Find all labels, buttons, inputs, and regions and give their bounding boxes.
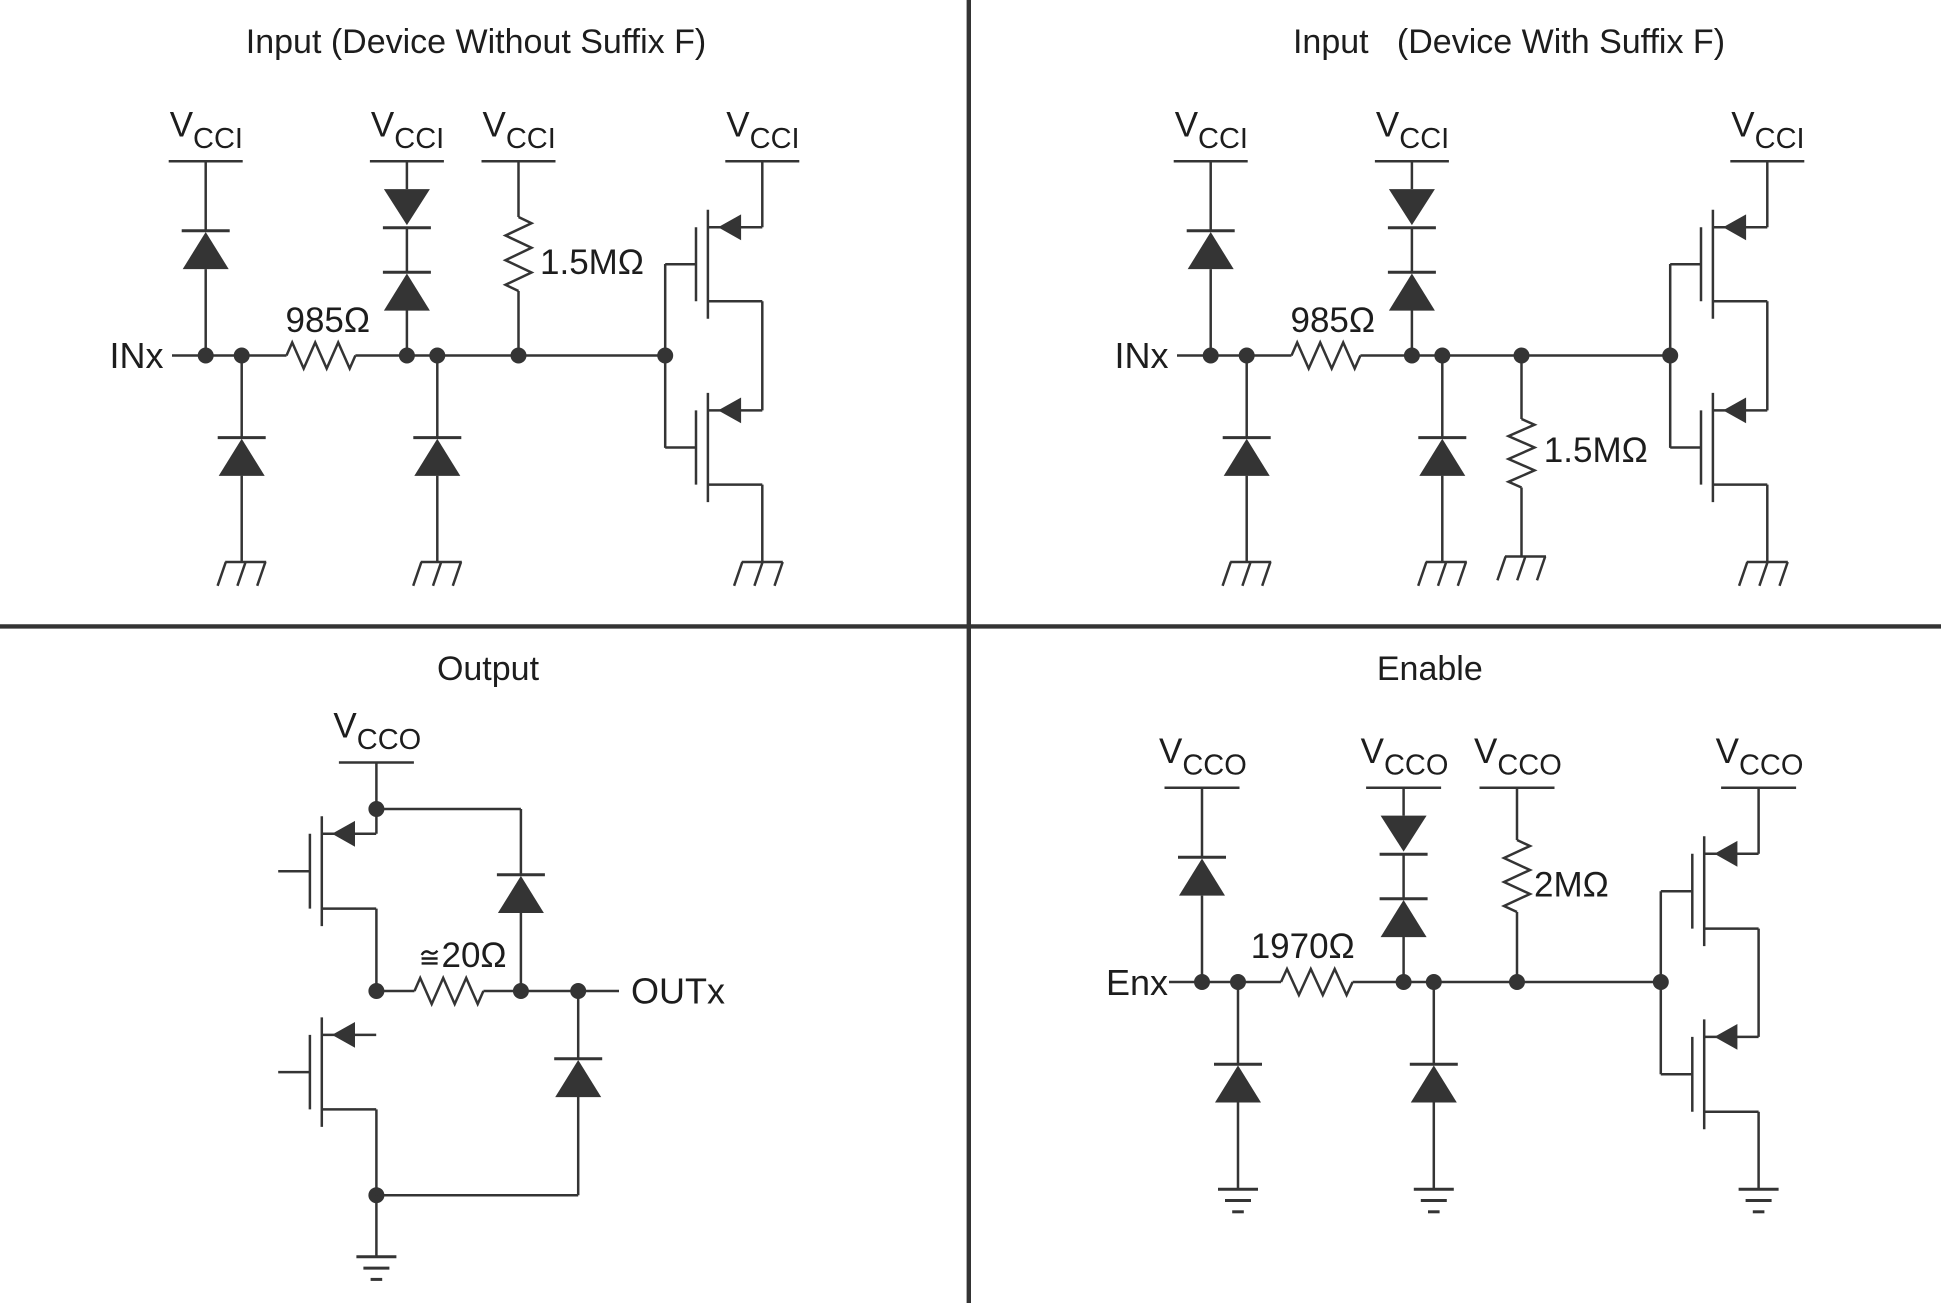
wire PMOS drain to NMOS drain (enable) xyxy=(1757,929,1760,1037)
junction at output node xyxy=(368,983,384,999)
power rail VCCI (D6) xyxy=(1174,160,1248,163)
resistor 985 ohm xyxy=(287,343,356,369)
junction after 20 ohm resistor xyxy=(513,983,529,999)
resistor 1.5 Mohm pull-down xyxy=(1509,356,1535,557)
wire resistor to gate node xyxy=(355,354,665,357)
diode D6 (input to VCCI) xyxy=(1187,161,1235,355)
diode D11 (OUTx to VCCO) xyxy=(497,875,545,991)
ground (under D9) xyxy=(1223,562,1272,586)
power rail VCCI (inverter F) xyxy=(1730,160,1804,163)
junction at D6 column xyxy=(1203,348,1219,364)
ground (under D17, earth symbol) xyxy=(1414,1189,1454,1212)
diode D2 (VCCI clamp, upper of series pair) xyxy=(383,161,431,227)
net label VCCO (over 2 Mohm) xyxy=(1474,732,1562,782)
wire NMOS source to bottom node xyxy=(375,1109,378,1195)
net label VCCI (over R2) xyxy=(483,106,556,156)
ground (output, earth symbol) xyxy=(356,1257,396,1280)
diode D1 (input to VCCI) xyxy=(182,161,230,355)
diode D14 (VCCO clamp, upper of series pair) xyxy=(1380,788,1428,854)
junction at D9 column xyxy=(1239,348,1255,364)
power rail VCCI (D1) xyxy=(169,160,243,163)
wire INx to 985 ohm resistor xyxy=(172,354,287,357)
wire NMOS source to ground (F) xyxy=(1766,485,1769,562)
svg-text:1970Ω: 1970Ω xyxy=(1251,927,1355,966)
power rail VCCO (2 Mohm) xyxy=(1480,787,1555,790)
net label VCCI (over D6) xyxy=(1175,106,1248,156)
ground (enable inverter, earth symbol) xyxy=(1739,1189,1779,1212)
net label VCCO (over enable inverter) xyxy=(1716,732,1804,782)
svg-text:20Ω: 20Ω xyxy=(442,936,507,975)
wire resistor to enable gate node xyxy=(1353,981,1661,984)
junction at R pull-down column xyxy=(1514,348,1530,364)
diode D16 (GND to enable) xyxy=(1214,982,1262,1189)
transistor Q3 PMOS xyxy=(1670,210,1767,319)
junction at D16 column xyxy=(1230,974,1246,990)
quadrant divider (vertical) xyxy=(967,0,971,1303)
transistor Q2 NMOS xyxy=(665,393,762,502)
diode D10 (GND to node) xyxy=(1418,356,1466,563)
svg-text:INx: INx xyxy=(1115,335,1169,376)
junction at D10 column xyxy=(1434,348,1450,364)
diode D13 (enable to VCCO) xyxy=(1178,788,1226,982)
ground (inverter) xyxy=(734,562,783,586)
svg-text:Enable: Enable xyxy=(1377,650,1483,688)
wire gate node to enable inverter gates xyxy=(1660,891,1663,1074)
wire VCCI rail to PMOS source (F) xyxy=(1766,161,1769,227)
diode D3 (VCCI clamp, lower of series pair) xyxy=(383,228,431,356)
wire PMOS drain to NMOS drain (F) xyxy=(1766,301,1769,410)
junction at OUTx xyxy=(570,983,586,999)
wire bottom node to D12 anode xyxy=(376,1194,578,1197)
transistor Q5 PMOS (output driver) xyxy=(278,816,376,926)
junction at D1 column xyxy=(198,348,214,364)
wire Enx to 1970 ohm resistor xyxy=(1169,981,1281,984)
resistor 1.5 Mohm pull-up xyxy=(506,161,532,355)
diode D15 (VCCO clamp, lower of series pair) xyxy=(1380,854,1428,982)
junction at VCCO / diode branch xyxy=(368,801,384,817)
wire to OUTx junction xyxy=(521,990,578,993)
junction at D5 column xyxy=(429,348,445,364)
svg-text:Output: Output xyxy=(437,650,540,688)
ground (under D5) xyxy=(413,562,462,586)
transistor Q7 PMOS (enable) xyxy=(1661,836,1759,946)
wire PMOS drain to NMOS drain xyxy=(761,301,764,410)
ground (under D10) xyxy=(1418,562,1467,586)
net label VCCI (over D2/D3) xyxy=(371,106,444,156)
svg-text:1.5MΩ: 1.5MΩ xyxy=(540,243,644,282)
ground (inverter F) xyxy=(1739,562,1788,586)
power rail VCCI (D7/D8) xyxy=(1375,160,1449,163)
diode D4 (GND to input) xyxy=(218,356,266,563)
junction at D13 column xyxy=(1194,974,1210,990)
wire gate node to inverter gates xyxy=(664,264,667,448)
svg-text:Input (Device Without Suffix F: Input (Device Without Suffix F) xyxy=(246,23,706,61)
diode D8 (VCCI clamp, lower of series pair) xyxy=(1388,228,1436,356)
net label VCCO (output) xyxy=(333,707,421,757)
power rail VCCI (inverter) xyxy=(725,160,799,163)
transistor Q8 NMOS (enable) xyxy=(1661,1019,1759,1129)
junction at D2/D3 column xyxy=(399,348,415,364)
wire VCCI rail to PMOS source xyxy=(761,161,764,227)
transistor Q1 PMOS xyxy=(665,210,762,319)
junction at D4 column xyxy=(234,348,250,364)
wire VCCO rail to PMOS source xyxy=(375,763,378,834)
power rail VCCI (D2/D3) xyxy=(370,160,444,163)
wire OUTx stub xyxy=(578,990,619,993)
diode D12 (GND rail to OUTx) xyxy=(554,991,602,1195)
diode D7 (VCCI clamp, upper of series pair) xyxy=(1388,161,1436,227)
junction at gate column xyxy=(657,348,673,364)
quadrant divider (horizontal) xyxy=(0,624,1941,628)
svg-text:985Ω: 985Ω xyxy=(1291,301,1376,340)
net label VCCI (over D1) xyxy=(170,106,243,156)
diode D5 (GND to node) xyxy=(413,356,461,563)
svg-text:Enx: Enx xyxy=(1106,962,1168,1003)
junction at R2 column xyxy=(511,348,527,364)
wire PMOS drain to output node xyxy=(375,909,378,991)
net label VCCI (over inverter F) xyxy=(1731,106,1804,156)
transistor Q4 NMOS xyxy=(1670,393,1767,502)
net label VCCO (over D13) xyxy=(1159,732,1247,782)
power rail VCCO (output) xyxy=(339,761,414,764)
svg-text:2MΩ: 2MΩ xyxy=(1534,866,1609,905)
ground (under D4) xyxy=(218,562,267,586)
wire resistor to gate node (F) xyxy=(1360,354,1670,357)
diode D17 (GND to node) xyxy=(1410,982,1458,1189)
svg-text:OUTx: OUTx xyxy=(631,971,725,1012)
net label VCCI (over D7/D8) xyxy=(1376,106,1449,156)
junction at enable gate column xyxy=(1653,974,1669,990)
wire gate node to inverter gates (F) xyxy=(1669,264,1672,448)
power rail VCCO (D14/D15) xyxy=(1366,787,1441,790)
power rail VCCO (enable inverter) xyxy=(1721,787,1796,790)
junction at 2 Mohm column xyxy=(1509,974,1525,990)
junction at D17 column xyxy=(1426,974,1442,990)
wire VCCO node to upper clamp diode xyxy=(376,809,521,875)
resistor 1970 ohm xyxy=(1281,969,1353,995)
net label VCCI (over inverter) xyxy=(726,106,799,156)
power rail VCCI (R2) xyxy=(482,160,556,163)
ground (under D16, earth symbol) xyxy=(1218,1189,1258,1212)
resistor ~20 ohm xyxy=(376,978,521,1004)
wire VCCO rail to PMOS source (enable) xyxy=(1757,788,1760,854)
wire NMOS source to ground xyxy=(761,485,764,562)
power rail VCCO (D13) xyxy=(1165,787,1240,790)
junction at bottom node xyxy=(368,1187,384,1203)
wire NMOS source to ground (enable) xyxy=(1757,1112,1760,1189)
net label VCCO (over D14/D15) xyxy=(1361,732,1449,782)
junction at gate F column xyxy=(1662,348,1678,364)
label approximately 20 ohm xyxy=(422,936,507,975)
ground (under 1.5 Mohm) xyxy=(1497,557,1546,581)
svg-text:Input (Device With Suffix F): Input (Device With Suffix F) xyxy=(1293,23,1725,61)
resistor 2 Mohm pull-up xyxy=(1504,788,1530,982)
wire bottom node to ground xyxy=(375,1195,378,1257)
svg-text:INx: INx xyxy=(110,335,164,376)
transistor Q6 NMOS (output driver) xyxy=(278,1017,376,1127)
svg-text:1.5MΩ: 1.5MΩ xyxy=(1544,431,1648,470)
junction at D14/D15 column xyxy=(1396,974,1412,990)
wire INx to 985 ohm resistor (F) xyxy=(1177,354,1292,357)
resistor 985 ohm (F) xyxy=(1292,343,1361,369)
svg-text:985Ω: 985Ω xyxy=(286,301,371,340)
diode D9 (GND to input) xyxy=(1223,356,1271,563)
junction at D7/D8 column xyxy=(1404,348,1420,364)
